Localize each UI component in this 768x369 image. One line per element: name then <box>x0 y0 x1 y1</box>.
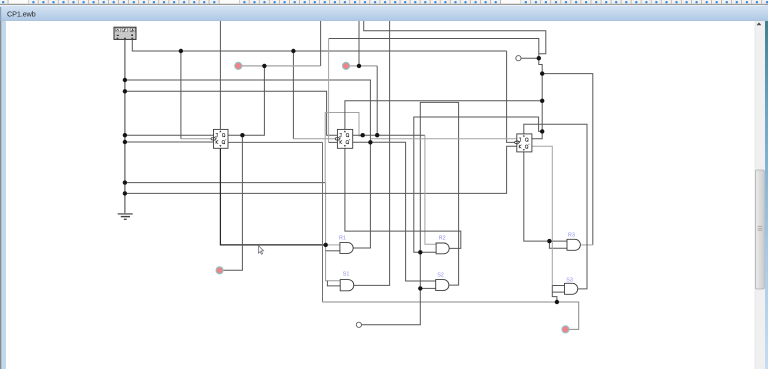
wire: U1 top pin from screen top <box>219 21 221 130</box>
wire: bus row y=91 to U2 J input <box>125 91 337 135</box>
wire: clock drop to U1 <box>180 51 182 139</box>
wire: S2 in2 stub from node <box>420 287 435 289</box>
open node N1 <box>516 56 521 61</box>
toolbar strip background <box>0 0 768 5</box>
left window frame <box>0 7 1 21</box>
wire: probe P2 net <box>349 65 359 67</box>
wire: clock drop to U3 <box>507 51 515 142</box>
probe P3 <box>562 326 569 333</box>
wire: clock stub into U2 (gray) <box>293 138 335 140</box>
probe P2 <box>342 62 349 69</box>
wire: circle net: open node N2 up through S2/R2 to H2 and S2 output <box>362 102 459 324</box>
svg-text:R3: R3 <box>568 232 575 238</box>
svg-text:S3: S3 <box>566 278 573 284</box>
wire: U2 Q' output to S2 in1 <box>353 142 436 281</box>
Q <box>222 133 225 136</box>
flip-flop U2 <box>335 129 352 148</box>
wire: R1 in1 stub (gray) <box>326 244 340 246</box>
wire: gray line into U3 J <box>371 138 517 140</box>
wire: y=73.6 over to x=592 down to R3 output <box>542 74 593 245</box>
wire: open node N1 stub <box>521 57 539 59</box>
toolbar bottom edge <box>0 4 768 5</box>
wire: U2 bottom pin to R2 output <box>345 148 461 249</box>
probe P4 <box>216 267 223 274</box>
wire: U1 Q' to long bottom rail and probe P3 <box>228 141 323 143</box>
wire: R1 in2 stub <box>326 250 340 252</box>
Q' <box>222 140 225 143</box>
gate labels <box>339 232 575 283</box>
thumb grip <box>758 227 763 231</box>
wire: S1 input tie and output up to top <box>327 281 340 286</box>
wire: U3 top pin up over and down to S3 output <box>524 124 587 289</box>
flip-flop U1 <box>211 129 228 148</box>
wire: clock terminal drop and main clock rail y=51 <box>132 39 506 51</box>
wire: U1 bottom pin to R1 inputs (selected, dark) <box>220 148 325 245</box>
wire: U1 Q branch down to probe P4 <box>223 135 242 270</box>
toolbar buttons <box>0 0 768 4</box>
mouse cursor <box>258 246 263 255</box>
wire: clock drop to U2 <box>292 51 294 139</box>
J <box>215 133 218 137</box>
wire: U3 Q' down to S3 inputs (gray) <box>532 146 552 285</box>
ground <box>118 214 133 219</box>
AND gate R3 <box>567 239 580 250</box>
right window frame <box>765 21 768 369</box>
flip-flop U3 <box>515 134 532 152</box>
svg-text:R2: R2 <box>439 235 446 241</box>
wire: bus row y=193.4 across to U3 K input <box>125 146 517 193</box>
svg-text:S2: S2 <box>437 272 444 278</box>
svg-text:R1: R1 <box>339 236 346 242</box>
AND gate S2 <box>436 280 449 291</box>
wire: clock stub into U1 (gray) <box>181 138 212 140</box>
vertical scrollbar track <box>755 21 765 369</box>
wire: y=30.7 rail from top <box>364 21 546 54</box>
wire: U1 Q output to node and up to probe P1 <box>228 66 264 135</box>
wire: bus from XFG1 common terminal down to ground <box>124 39 126 214</box>
wire: U3 bottom pin to R3 inputs <box>524 151 567 241</box>
AND gate R2 <box>436 243 449 254</box>
wire: H3 rail: R2 in2 up, over, down to x=542 node <box>414 117 542 252</box>
probe P1 <box>235 62 242 69</box>
wire: node chain down x=542 to U3 Q <box>532 58 542 139</box>
AND gate R1 <box>340 243 353 254</box>
wire: U1 K input <box>125 141 213 143</box>
wire: U1 J input <box>125 134 213 136</box>
open node N2 <box>356 322 361 327</box>
flip-flop pin letters (vector glyphs) <box>215 133 529 148</box>
AND gate S3 <box>565 283 578 294</box>
AND gate S1 <box>340 280 354 291</box>
wire: U2 top pin up and across to x=542 node <box>345 101 542 130</box>
wire: S1/R1 feeder vertical x=327 <box>326 183 340 281</box>
title bar <box>0 5 768 21</box>
wire: U2 Q output to R2 in1 (gray vertical) <box>353 134 425 136</box>
wire: bus row y=182.6 up and over to U2 Q node (gray) <box>125 182 325 184</box>
K <box>216 140 218 143</box>
function generator XFG1 body <box>114 27 136 39</box>
svg-text:S1: S1 <box>343 272 350 278</box>
wire: y=38.5 rail to open node N1 and gray drop to U2 K <box>329 39 539 59</box>
svg-text:CP1.ewb: CP1.ewb <box>7 10 36 19</box>
scrollbar thumb <box>756 170 765 289</box>
scrollbar up arrow <box>757 22 762 25</box>
wire: bus row y=80 to vertical x=370 down to R1 output net <box>125 80 371 248</box>
